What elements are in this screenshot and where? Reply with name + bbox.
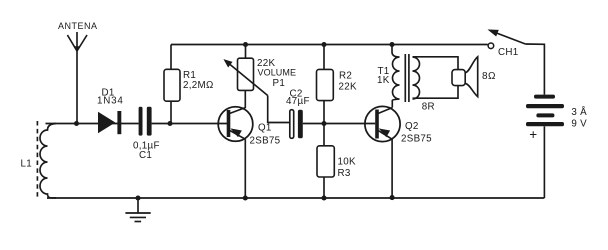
label D1 1N34 (97, 88, 124, 107)
svg-text:P1: P1 (273, 78, 286, 89)
svg-text:2SB75: 2SB75 (401, 134, 432, 145)
svg-text:ANTENA: ANTENA (58, 21, 98, 31)
antenna (67, 32, 87, 124)
svg-text:C1: C1 (139, 150, 152, 161)
svg-text:R3: R3 (338, 168, 351, 179)
wire bottom rail (47, 197, 544, 199)
transistor Q2 (365, 106, 400, 141)
wire R3 bottom lead (323, 177, 325, 198)
wire Q2 emitter to rail (391, 139, 393, 197)
svg-text:Q2: Q2 (405, 121, 419, 132)
wire battery to bottom rail (543, 126, 545, 198)
resistor R3 (317, 146, 334, 177)
capacitor C1 (139, 107, 152, 136)
svg-text:9 V: 9 V (571, 119, 587, 130)
speaker LS1 (452, 57, 478, 97)
junction Q1 emitter bottom (243, 195, 248, 200)
diode D1 (98, 111, 121, 134)
wire R2 bottom lead (323, 101, 325, 124)
wire P1 bottom to Q1 collector (244, 90, 246, 108)
transformer T1 (392, 52, 420, 102)
svg-text:1K: 1K (377, 75, 390, 86)
transistor Q1 (218, 107, 253, 142)
label C2 47uF (286, 89, 310, 107)
junction antenna node (74, 121, 79, 126)
wire C2 to Q2 base (303, 123, 375, 125)
resistor R1 (164, 69, 180, 101)
junction T1 top (389, 42, 394, 47)
svg-text:10K: 10K (338, 157, 356, 168)
svg-text:47µF: 47µF (286, 96, 310, 107)
battery B1 (526, 95, 564, 127)
label R3 10K (338, 157, 356, 180)
inductor L1 (37, 121, 56, 198)
junction Q2 emitter bottom (390, 195, 395, 200)
junction node R1/C1 (167, 121, 172, 126)
svg-text:3 Å: 3 Å (571, 107, 587, 118)
resistor R2 (317, 69, 334, 100)
ground (125, 198, 150, 222)
wire speaker loop (413, 57, 459, 98)
junction R3 bottom (321, 195, 326, 200)
svg-text:+: + (529, 127, 537, 142)
svg-text:L1: L1 (21, 159, 33, 170)
svg-text:VOLUME: VOLUME (258, 68, 297, 78)
switch CH1 (488, 30, 525, 49)
wire P1 wiper to C2 (268, 96, 290, 123)
junction ground node (135, 195, 140, 200)
wire R1 bottom lead (170, 101, 172, 123)
label R2 22K (339, 71, 357, 93)
potentiometer P1 (225, 58, 268, 95)
label battery 3A 9V (571, 107, 587, 130)
label T1 1K (377, 66, 390, 86)
wire Q1 emitter to ground rail (244, 139, 246, 198)
label Q1 2SB75 (250, 123, 281, 147)
junction P1 top (243, 42, 248, 47)
junction R2/R3/Q2 base node (321, 121, 326, 126)
wire P1 top lead (245, 45, 247, 59)
svg-text:8Ω: 8Ω (482, 71, 496, 82)
svg-text:R2: R2 (339, 71, 352, 82)
wire switch to battery top (525, 44, 544, 95)
label Q2 2SB75 (401, 121, 432, 145)
wire main mid (152, 123, 227, 125)
svg-text:2SB75: 2SB75 (250, 136, 281, 147)
wire R1 top lead (170, 45, 172, 70)
wire R2 top lead (323, 45, 325, 70)
svg-text:CH1: CH1 (498, 47, 519, 58)
wire main left (46, 123, 139, 125)
junction R2 top (321, 42, 326, 47)
svg-text:1N34: 1N34 (97, 96, 124, 107)
label C1 0,1uF (133, 141, 160, 162)
svg-text:8R: 8R (422, 102, 435, 113)
capacitor C2 (290, 110, 303, 139)
svg-text:2,2MΩ: 2,2MΩ (183, 80, 214, 91)
label R1 2,2MOhm (183, 70, 214, 91)
wire Q2 collector to T1 (391, 100, 393, 108)
wire T1 primary top lead (391, 45, 393, 53)
label P1 22K VOLUME (257, 58, 296, 89)
svg-text:Q1: Q1 (258, 123, 272, 134)
wire top rail (171, 44, 488, 46)
svg-text:22K: 22K (339, 82, 357, 93)
wire R3 top lead (323, 124, 325, 146)
